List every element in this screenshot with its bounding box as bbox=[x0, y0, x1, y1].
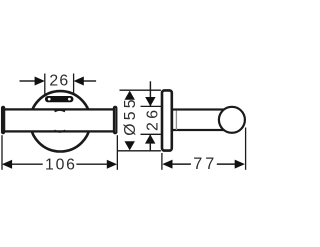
dim 106: right extension line bbox=[116, 135, 118, 170]
dim 77: left segment bbox=[172, 163, 191, 165]
front view: right end cap bbox=[114, 107, 116, 133]
front view: rod boss bottom arc bbox=[54, 130, 65, 132]
svg-text:26: 26 bbox=[145, 107, 162, 131]
dim O55: top extension line bbox=[120, 89, 161, 91]
screw hole left bbox=[48, 98, 51, 101]
dim 106: right arrow bbox=[107, 160, 117, 169]
front view: wall flange circle bbox=[30, 91, 90, 151]
side view: rod bbox=[172, 110, 232, 131]
dim O55: bottom arrow bbox=[125, 141, 135, 150]
dim 77: left extension line bbox=[161, 153, 163, 170]
dim 77: right segment bbox=[217, 163, 235, 165]
dim 77: left arrow bbox=[162, 160, 172, 169]
dim 26 side: top extension line bbox=[141, 105, 161, 107]
dim 26 top: left tail bbox=[20, 80, 36, 82]
front view: mounting slot (black) bbox=[45, 96, 73, 102]
dim 26 side: lower tail bbox=[149, 134, 151, 150]
dim 106: right segment bbox=[76, 163, 107, 165]
dim 77: right arrow bbox=[235, 160, 245, 169]
dim O55: bottom extension line bbox=[117, 150, 161, 152]
front view: bar body bbox=[4, 109, 115, 131]
dim 26 top: right arrow bbox=[74, 77, 84, 86]
dim 26 side: bottom extension line bbox=[141, 133, 161, 135]
dim 26 side: bottom arrow (outside, pointing up) bbox=[145, 134, 155, 143]
side view: ball end bbox=[219, 107, 245, 133]
dim 26 side: upper tail bbox=[149, 81, 151, 106]
side view: wall plate bbox=[162, 90, 172, 150]
dim 26 top: left arrow bbox=[35, 77, 45, 86]
front view: left end cap bbox=[2, 107, 4, 133]
dim 106: left arrow bbox=[2, 160, 12, 169]
svg-text:77: 77 bbox=[193, 155, 217, 173]
dim 77: right extension line bbox=[245, 128, 247, 170]
dim 26 side: top arrow (outside, pointing down) bbox=[145, 97, 155, 106]
screw hole right bbox=[68, 98, 71, 101]
svg-text:26: 26 bbox=[49, 73, 69, 90]
front view: rod boss top arc bbox=[55, 110, 65, 111]
dim 106: left extension line bbox=[1, 135, 3, 170]
dim 26 top: right extension line bbox=[73, 74, 75, 95]
dim 26 top: right tail bbox=[84, 80, 97, 82]
dim 26 top: left extension line bbox=[44, 74, 46, 96]
dim 106: left segment bbox=[12, 163, 43, 165]
side view: rod seam line bbox=[175, 111, 177, 131]
svg-text:Ø55: Ø55 bbox=[122, 96, 139, 135]
svg-text:106: 106 bbox=[45, 156, 77, 173]
dim O55: top arrow bbox=[125, 91, 135, 100]
